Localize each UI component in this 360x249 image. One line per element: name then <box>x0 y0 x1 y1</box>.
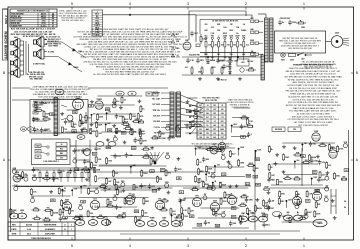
svg-text:1W: 1W <box>230 24 233 26</box>
svg-text:OUT 1500 SPD 2W B+ 820 INT: OUT 1500 SPD 2W B+ 820 INT <box>298 125 329 127</box>
svg-text:3.3: 3.3 <box>153 190 155 192</box>
svg-text:6V3: 6V3 <box>172 211 175 213</box>
svg-text:1: 1 <box>71 229 72 231</box>
svg-text:OUT: OUT <box>221 137 224 139</box>
svg-text:3: 3 <box>187 244 189 248</box>
svg-text:45V SPD MID 56K 5% IN 820 REV: 45V SPD MID 56K 5% IN 820 REV OUT MID IN… <box>284 75 342 78</box>
svg-text:.047: .047 <box>251 212 255 215</box>
svg-text:1W .022: 1W .022 <box>247 61 253 63</box>
svg-text:1500: 1500 <box>101 184 105 186</box>
svg-text:6V3: 6V3 <box>174 217 177 219</box>
svg-text:REV 2: REV 2 <box>4 15 8 24</box>
svg-text:1500: 1500 <box>222 201 226 203</box>
svg-text:C12: C12 <box>76 97 79 99</box>
svg-text:820: 820 <box>256 168 259 170</box>
svg-text:TWIN REVERB AA769: TWIN REVERB AA769 <box>31 237 51 240</box>
svg-text:.01: .01 <box>206 105 208 107</box>
svg-text:5%: 5% <box>84 167 87 169</box>
svg-text:INT: INT <box>37 156 40 158</box>
svg-text:1: 1 <box>303 2 305 6</box>
svg-text:1W: 1W <box>304 143 307 145</box>
svg-text:1W: 1W <box>251 51 254 53</box>
svg-text:TUBES PWR: TUBES PWR <box>11 25 22 27</box>
svg-text:6L6: 6L6 <box>116 101 119 103</box>
svg-text:.04: .04 <box>243 23 245 26</box>
svg-text:RLO: RLO <box>27 233 32 235</box>
svg-text:12AX: 12AX <box>223 35 228 38</box>
svg-text:R21: R21 <box>243 115 246 117</box>
svg-text:YEL TREB .1 OUT RED R21 VOL 12: YEL TREB .1 OUT RED R21 VOL 12AX7 <box>293 121 333 124</box>
svg-text:6V3: 6V3 <box>306 201 309 203</box>
svg-text:1: 1 <box>303 244 305 248</box>
svg-text:PIN 2W REV: PIN 2W REV <box>280 18 291 20</box>
svg-text:C12 5%: C12 5% <box>154 127 161 129</box>
svg-text:B+: B+ <box>37 129 39 131</box>
svg-text:250: 250 <box>34 112 37 114</box>
svg-text:TRE: TRE <box>316 191 319 193</box>
svg-text:22K 45V .047 460V .022 .: 22K 45V .047 460V .022 . <box>62 20 85 22</box>
svg-text:1500 SPD VOL 1M MID 25UF 10K V: 1500 SPD VOL 1M MID 25UF 10K VOL 6L6 VO <box>290 74 336 76</box>
svg-text:.047: .047 <box>108 180 112 183</box>
svg-text:6V3: 6V3 <box>161 170 164 172</box>
svg-text:6V3: 6V3 <box>152 186 155 188</box>
svg-text:68K BLU TREB GRN 25UF 12AX7 2W: 68K BLU TREB GRN 25UF 12AX7 2W 470K .1 O… <box>286 70 341 73</box>
svg-text:100K: 100K <box>314 131 319 133</box>
svg-text:.022: .022 <box>150 223 154 225</box>
svg-text:.047: .047 <box>184 66 187 69</box>
svg-text:C12: C12 <box>213 117 216 119</box>
svg-text:C12: C12 <box>138 217 141 219</box>
svg-text:1W PIN: 1W PIN <box>154 133 161 135</box>
svg-text:1500: 1500 <box>122 212 126 214</box>
svg-text:250 MID: 250 MID <box>153 121 160 123</box>
svg-text:B+: B+ <box>236 33 238 35</box>
svg-text:250K: 250K <box>98 124 103 126</box>
svg-text:3.3: 3.3 <box>214 121 216 123</box>
svg-text:R21: R21 <box>83 128 86 130</box>
svg-text:25UF: 25UF <box>220 147 224 149</box>
svg-text:25UF: 25UF <box>198 72 202 74</box>
svg-text:C12: C12 <box>76 151 79 153</box>
svg-text:1W: 1W <box>140 119 143 121</box>
svg-text:VOL: VOL <box>246 45 249 47</box>
svg-text:B+: B+ <box>114 135 116 137</box>
svg-text:GND: GND <box>132 116 137 118</box>
svg-text:R21: R21 <box>37 151 40 153</box>
svg-text:3.3K GRN 25UF 3: 3.3K GRN 25UF 3 <box>43 161 58 163</box>
svg-text:R21: R21 <box>87 118 90 120</box>
svg-text:2: 2 <box>245 244 247 248</box>
svg-text:.022: .022 <box>98 133 102 135</box>
svg-text:.047: .047 <box>163 197 167 200</box>
svg-text:B+: B+ <box>300 20 302 22</box>
svg-text:X0: X0 <box>52 25 54 27</box>
svg-text:6L6: 6L6 <box>204 36 207 38</box>
svg-text:.047: .047 <box>68 121 72 124</box>
svg-text:4: 4 <box>129 244 131 248</box>
svg-text:820: 820 <box>144 147 147 149</box>
svg-text:6L6: 6L6 <box>328 165 331 167</box>
svg-text:100K: 100K <box>229 36 234 38</box>
svg-text:.047: .047 <box>286 175 290 178</box>
svg-text:1500: 1500 <box>162 223 166 225</box>
svg-text:100: 100 <box>221 109 224 111</box>
svg-text:1M: 1M <box>73 127 76 129</box>
svg-text:B: B <box>3 71 5 75</box>
svg-text:460V: 460V <box>65 199 70 202</box>
svg-text:AA769: AA769 <box>26 223 32 226</box>
svg-text:YEL: YEL <box>217 54 220 56</box>
svg-text:.047: .047 <box>212 143 216 146</box>
svg-text:.01: .01 <box>29 129 31 131</box>
svg-text:.02: .02 <box>199 133 201 135</box>
svg-text:YEL TREB MID: YEL TREB MID <box>30 79 44 81</box>
svg-text:68K 250K .01 R21 25UF .1 220V: 68K 250K .01 R21 25UF .1 220V 6V3 56K 1 <box>292 116 335 118</box>
svg-text:6V3: 6V3 <box>84 122 87 124</box>
svg-text:.01 56K 2W 5% VOL IN IN 6V3: .01 56K 2W 5% VOL IN IN 6V3 <box>212 21 238 23</box>
svg-text:B+: B+ <box>206 125 208 127</box>
svg-text:820: 820 <box>118 130 121 132</box>
svg-text:6V3: 6V3 <box>212 67 215 69</box>
svg-text:AMPLIFIER: AMPLIFIER <box>45 232 55 235</box>
svg-text:.047: .047 <box>108 203 112 206</box>
svg-text:1W: 1W <box>108 112 111 114</box>
svg-text:100K 22K 25UF BASS 820 250K VO: 100K 22K 25UF BASS 820 250K VOL YEL R21 … <box>289 67 338 70</box>
svg-text:460V 25UF B+ 1W 5% INT .022 6L: 460V 25UF B+ 1W 5% INT .022 6L6 12AX7 <box>292 81 334 84</box>
svg-text:B+: B+ <box>271 149 273 151</box>
svg-text:250K: 250K <box>208 169 213 171</box>
svg-text:GRN: GRN <box>240 162 245 164</box>
svg-text:1500: 1500 <box>184 216 188 218</box>
svg-text:3.3: 3.3 <box>223 174 225 176</box>
svg-text:BASS: BASS <box>257 207 263 210</box>
svg-text:6V3: 6V3 <box>85 151 88 153</box>
svg-text:B: B <box>356 71 358 75</box>
svg-text:6-69: 6-69 <box>27 229 31 231</box>
svg-text:1500: 1500 <box>229 30 233 32</box>
svg-text:DWN: DWN <box>12 233 17 235</box>
svg-text:.047: .047 <box>144 212 148 215</box>
svg-text:.047: .047 <box>107 188 111 191</box>
svg-text:1W 12AX: 1W 12AX <box>152 103 160 106</box>
svg-text:IN GND 25UF R21 B+ SPD TREB R2: IN GND 25UF R21 B+ SPD TREB R21 25UF B+ … <box>288 79 339 81</box>
svg-text:34: 34 <box>344 200 346 203</box>
svg-text:.01 100K 220V C12 6V3 BLU GRN: .01 100K 220V C12 6V3 BLU GRN <box>296 114 330 116</box>
svg-text:VOL: VOL <box>132 194 135 196</box>
svg-text:YEL 12AT: YEL 12AT <box>152 97 161 100</box>
svg-text:470K: 470K <box>142 140 147 143</box>
svg-text:C12 22K PIN INT OUT 45V RED 25: C12 22K PIN INT OUT 45V RED 250K REV 2W … <box>287 119 339 121</box>
svg-text:TREB: TREB <box>96 99 102 101</box>
svg-text:1M PIN .047 2W 250K 2W 22K 100: 1M PIN .047 2W 250K 2W 22K 100K 25UF 68K… <box>285 105 341 107</box>
svg-text:INT: INT <box>199 105 202 107</box>
svg-text:.1: .1 <box>251 134 253 136</box>
svg-text:5%: 5% <box>105 222 108 224</box>
svg-text:C12: C12 <box>36 170 39 172</box>
svg-text:.1: .1 <box>221 141 223 143</box>
svg-text:INT: INT <box>206 117 209 119</box>
svg-text:820: 820 <box>154 135 157 137</box>
svg-text:6L6 R21 TREB .1 470K C12 460V: 6L6 R21 TREB .1 470K C12 460V B <box>43 99 78 101</box>
svg-text:250K: 250K <box>261 213 266 215</box>
svg-text:B+: B+ <box>249 124 251 126</box>
svg-text:R21: R21 <box>221 121 224 123</box>
svg-text:1M 3.3K YEL BLU .01 100K C12 B: 1M 3.3K YEL BLU .01 100K C12 BLU BASS 47… <box>289 87 337 90</box>
svg-text:B+: B+ <box>282 22 284 24</box>
svg-text:.047: .047 <box>271 174 275 177</box>
svg-text:220: 220 <box>93 153 96 155</box>
svg-text:4 OHM TOTAL: 4 OHM TOTAL <box>33 63 46 66</box>
svg-text:YEL: YEL <box>221 133 224 135</box>
svg-text:TRE YEL: TRE YEL <box>152 110 160 112</box>
svg-text:220: 220 <box>205 24 208 26</box>
svg-text:BLU C12 PIN: BLU C12 PIN <box>205 100 217 102</box>
svg-text:GRN: GRN <box>20 210 25 212</box>
svg-text:R21 10K 100K B+ 25UF .047 6L6: R21 10K 100K B+ 25UF .047 6L6 .1 6V3 INT <box>11 28 56 31</box>
svg-text:1500: 1500 <box>279 182 283 184</box>
svg-text:.01: .01 <box>123 100 126 102</box>
svg-text:.022 460V RE: .022 460V RE <box>188 54 200 57</box>
svg-text:GND: GND <box>336 176 341 178</box>
svg-text:1500: 1500 <box>108 160 112 162</box>
svg-text:.022: .022 <box>37 105 41 107</box>
svg-text:5%: 5% <box>262 219 265 221</box>
svg-text:R21: R21 <box>60 149 63 151</box>
svg-text:5: 5 <box>71 2 73 6</box>
svg-text:BASS: BASS <box>226 193 232 196</box>
svg-text:VOL: VOL <box>232 217 235 219</box>
svg-text:R21: R21 <box>145 155 148 157</box>
svg-text:GND: GND <box>321 143 326 145</box>
svg-text:YEL: YEL <box>227 45 230 47</box>
svg-text:.022: .022 <box>217 165 220 167</box>
svg-text:12AX: 12AX <box>197 178 202 181</box>
svg-text:820: 820 <box>81 123 84 125</box>
svg-text:PIN 220V BLU YEL INT INT 56K .: PIN 220V BLU YEL INT INT 56K .047 TREB .… <box>285 91 341 93</box>
svg-text:100K: 100K <box>128 155 133 157</box>
svg-text:BASS: BASS <box>210 59 216 62</box>
svg-text:BASS: BASS <box>126 200 132 203</box>
svg-text:VOL: VOL <box>132 148 135 150</box>
svg-text:R21: R21 <box>325 196 328 198</box>
svg-text:.1: .1 <box>218 36 220 38</box>
svg-text:.01: .01 <box>15 67 17 69</box>
svg-text:6V3: 6V3 <box>115 173 118 175</box>
svg-text:45V 1W 820 5% 45V 10K: 45V 1W 820 5% 45V 10K <box>288 48 312 50</box>
svg-text:150: 150 <box>51 114 54 116</box>
svg-text:B+: B+ <box>229 163 231 165</box>
svg-text:6V3: 6V3 <box>122 132 125 134</box>
svg-text:.1: .1 <box>200 121 201 123</box>
svg-text:GRN: GRN <box>250 40 255 42</box>
svg-text:B+: B+ <box>297 212 299 214</box>
svg-text:VOL GND RED 12AT7 56K 56K 10K: VOL GND RED 12AT7 56K 56K 10K 12AT7 220V… <box>289 110 338 113</box>
svg-text:250: 250 <box>213 133 216 135</box>
svg-text:BASS: BASS <box>241 29 247 32</box>
svg-text:.01: .01 <box>176 55 179 57</box>
svg-text:820: 820 <box>221 45 224 47</box>
svg-text:C12: C12 <box>199 125 202 127</box>
svg-text:TRE: TRE <box>108 130 111 132</box>
svg-text:820: 820 <box>287 212 290 214</box>
svg-text:TWIN REVERB: TWIN REVERB <box>44 224 57 226</box>
svg-text:820: 820 <box>74 124 77 126</box>
svg-text:YEL: YEL <box>230 54 233 56</box>
svg-text:2: 2 <box>245 2 247 6</box>
svg-text:VOL 5% 1W BLU B+ YEL GND .022: VOL 5% 1W BLU B+ YEL GND .022 BASS 100K … <box>288 101 339 104</box>
svg-text:SCHEMATIC: SCHEMATIC <box>45 228 56 231</box>
svg-text:5: 5 <box>71 244 73 248</box>
svg-text:.1: .1 <box>297 218 299 220</box>
svg-text:100: 100 <box>254 176 257 178</box>
svg-text:2W: 2W <box>204 194 207 196</box>
svg-text:.022 .01 OUT 22K 100K .022 3.3: .022 .01 OUT 22K 100K .022 3.3K .047 <box>14 30 53 33</box>
svg-text:6V3: 6V3 <box>213 109 216 111</box>
svg-text:220V: 220V <box>335 33 340 35</box>
svg-text:6V3: 6V3 <box>211 27 214 29</box>
svg-text:C12: C12 <box>221 117 224 119</box>
svg-text:.01: .01 <box>199 162 202 164</box>
svg-text:25UF: 25UF <box>211 172 215 174</box>
svg-text:A22093B SCHEM: A22093B SCHEM <box>4 31 8 59</box>
svg-text:470K: 470K <box>339 148 344 151</box>
svg-text:.047 BLU 12AX7 3.3K 250K YEL Y: .047 BLU 12AX7 3.3K 250K YEL YEL 1W INT … <box>287 84 341 87</box>
svg-text:220: 220 <box>135 211 138 213</box>
svg-text:OUT 6L6 VOL 1500 1M GND BLU 5%: OUT 6L6 VOL 1500 1M GND BLU 5% 3.3K <box>292 99 334 101</box>
svg-text:.1: .1 <box>97 178 99 180</box>
svg-text:B+: B+ <box>199 113 201 115</box>
svg-text:.02: .02 <box>242 137 244 139</box>
svg-text:TREB: TREB <box>125 126 131 128</box>
svg-text:250: 250 <box>199 129 202 131</box>
svg-text:56: 56 <box>344 207 346 209</box>
svg-text:2W: 2W <box>131 93 134 95</box>
svg-text:DATE: DATE <box>11 228 17 231</box>
svg-text:220V: 220V <box>213 201 218 203</box>
svg-text:BASS: BASS <box>318 222 324 225</box>
svg-text:5%: 5% <box>12 211 15 213</box>
svg-text:6V3: 6V3 <box>198 224 201 226</box>
svg-text:TREB: TREB <box>61 191 67 193</box>
svg-text:GRN: GRN <box>249 200 254 202</box>
svg-text:45V R21 82: 45V R21 82 <box>218 79 227 82</box>
svg-text:6L6: 6L6 <box>159 179 162 181</box>
svg-text:6V3: 6V3 <box>93 199 96 201</box>
svg-text:250K: 250K <box>96 170 101 172</box>
svg-text:2: 2 <box>71 224 72 226</box>
svg-text:6L6: 6L6 <box>297 160 300 162</box>
svg-text:.01: .01 <box>221 105 223 107</box>
svg-text:C12: C12 <box>119 191 122 193</box>
svg-text:250K: 250K <box>99 117 104 119</box>
svg-text:1500 TREB: 1500 TREB <box>48 46 58 48</box>
svg-text:8 OHM: 8 OHM <box>48 52 54 54</box>
svg-text:B+: B+ <box>142 108 144 110</box>
svg-text:820: 820 <box>218 214 221 216</box>
svg-text:VOL: VOL <box>51 200 54 202</box>
svg-text:TREB 100K BLU 1W 45V 6V3 GRN 1: TREB 100K BLU 1W 45V 6V3 GRN 12AT7 VOL <box>290 93 336 96</box>
svg-text:470K: 470K <box>316 213 321 216</box>
svg-text:.047: .047 <box>176 124 179 127</box>
svg-text:C12: C12 <box>64 129 67 131</box>
svg-text:6V3: 6V3 <box>60 158 63 160</box>
svg-text:R21: R21 <box>213 129 216 131</box>
svg-text:TREB: TREB <box>150 217 156 219</box>
svg-text:6L6 820 INT 100K GRN .01 C12 4: 6L6 820 INT 100K GRN .01 C12 45V 100K .0… <box>288 96 338 98</box>
svg-text:100: 100 <box>206 137 209 139</box>
svg-text:REVERB: REVERB <box>275 129 283 131</box>
svg-text:22K 45V: 22K 45V <box>153 115 161 118</box>
svg-text:4: 4 <box>129 2 131 6</box>
svg-text:C12: C12 <box>73 157 76 159</box>
svg-text:BASS: BASS <box>53 211 59 214</box>
svg-text:3: 3 <box>187 2 189 6</box>
svg-text:VOL: VOL <box>14 47 17 49</box>
svg-text:.01: .01 <box>21 216 24 218</box>
svg-text:YEL: YEL <box>213 105 216 107</box>
svg-text:.047: .047 <box>325 184 328 187</box>
svg-text:6L6: 6L6 <box>243 126 246 128</box>
svg-text:TREB: TREB <box>78 216 84 218</box>
svg-text:6L6GC: 6L6GC <box>41 25 47 27</box>
svg-text:12AX7 25UF 6L6 BASS 45V 10K C1: 12AX7 25UF 6L6 BASS 45V 10K C12 3.3K <box>292 107 334 110</box>
svg-text:FENDER TWIN REVERB AA769 NOTES: FENDER TWIN REVERB AA769 NOTES <box>293 64 333 67</box>
svg-text:250K: 250K <box>205 184 210 186</box>
svg-text:2W: 2W <box>71 211 74 213</box>
svg-text:B+ 22K 470K 1W 6L6 R21 GND 12A: B+ 22K 470K 1W 6L6 R21 GND 12AT7 IN MID … <box>93 73 167 76</box>
